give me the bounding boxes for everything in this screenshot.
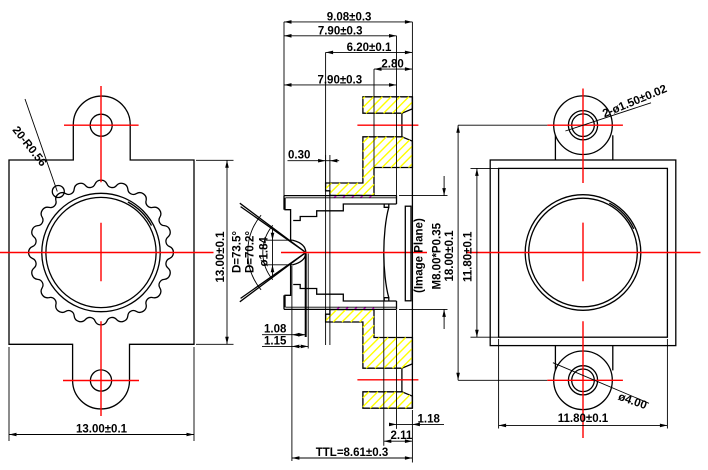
dim TTL arrows — [292, 456, 300, 460]
dim 1.15 line — [262, 345, 308, 347]
dim 13.00 right line — [226, 160, 228, 344]
barrel thread root line bottom — [286, 306, 397, 308]
section holder upper L-piece below hole — [326, 137, 413, 196]
optical axis centerline — [281, 252, 427, 254]
svg-text:ø1.84: ø1.84 — [259, 236, 271, 266]
dim 2.11 arrows — [384, 439, 392, 443]
svg-text:D=73.5°: D=73.5° — [232, 231, 244, 273]
extension line barrel rear down — [396, 310, 398, 429]
left view lens bore inner circle — [46, 197, 156, 307]
svg-text:11.80±0.1: 11.80±0.1 — [558, 413, 609, 425]
svg-text:13.00±0.1: 13.00±0.1 — [215, 231, 227, 283]
thread engagement hatch magenta top — [334, 195, 372, 198]
extension line aperture face down — [291, 266, 293, 461]
right view top hole chamfer circle — [568, 111, 597, 140]
svg-text:7.90±0.3: 7.90±0.3 — [317, 74, 362, 86]
right view vertical centerline — [582, 89, 584, 439]
fov cone line 70.2 bottom — [241, 253, 306, 299]
fov arc inner — [263, 225, 273, 279]
extension line second vertex down — [307, 254, 309, 349]
left view body outline — [9, 96, 194, 409]
M8 thread dim line — [443, 176, 445, 196]
barrel front outer step top — [285, 198, 291, 240]
right view top tab sides — [554, 135, 556, 160]
left view knurled focus ring (20 teeth) — [29, 180, 174, 325]
left view horizontal centerline — [0, 252, 214, 254]
svg-text:M8.00*P0.35: M8.00*P0.35 — [432, 222, 444, 289]
leader 4.00 line — [553, 363, 649, 404]
dim 13.00 bottom extension lines — [8, 347, 10, 441]
extension line rear vertex down — [383, 254, 385, 446]
section holder lower ear lobe below hole — [363, 392, 413, 408]
front lens surface — [293, 240, 306, 265]
svg-text:D=70.2°: D=70.2° — [245, 231, 257, 273]
dim TTL line — [292, 457, 413, 459]
section bottom hole centerline — [357, 379, 418, 381]
extension line cavity wall up — [373, 69, 375, 167]
dim 11.80 bottom extension lines — [498, 339, 500, 429]
label 20-R0.56 leader line — [25, 99, 57, 192]
section holder lower L-piece above hole — [326, 310, 413, 369]
dim 1.84 line — [272, 229, 274, 277]
svg-text:11.80±0.1: 11.80±0.1 — [463, 231, 475, 282]
dim 13.00 bottom line — [9, 434, 194, 436]
aperture edge bottom — [291, 264, 293, 266]
right view bottom tab sides — [554, 346, 556, 371]
svg-text:TTL=8.61±0.3: TTL=8.61±0.3 — [316, 447, 388, 459]
right view horizontal centerline — [467, 252, 701, 254]
dim 1.08 line — [262, 334, 306, 336]
extension line back face down — [411, 410, 413, 463]
dim 1.84 arrows — [271, 233, 275, 241]
barrel front face bottom segment — [283, 295, 285, 309]
thread engagement hatch magenta bottom — [337, 307, 374, 310]
left view thread arc fragment — [128, 202, 152, 226]
dim 11.80 bottom arrows — [499, 424, 507, 428]
svg-text:2.11: 2.11 — [391, 430, 413, 442]
right view bore circle outer — [525, 195, 641, 311]
svg-text:13.00±0.1: 13.00±0.1 — [76, 424, 128, 436]
hatch lower L-piece — [326, 310, 413, 369]
svg-text:ø4.00: ø4.00 — [616, 391, 648, 412]
right view inner body square — [499, 168, 668, 337]
right view bore circle inner — [529, 198, 638, 307]
dim 6.20 line — [326, 51, 413, 53]
right view top hole circle — [572, 114, 595, 137]
right view bottom hole chamfer circle — [568, 366, 597, 395]
dim 2.80 line — [374, 68, 412, 70]
barrel inner bore steps bottom — [293, 285, 396, 302]
section holder ear hole chamfer verticals — [401, 113, 403, 137]
svg-text:20-R0.56: 20-R0.56 — [10, 124, 49, 169]
svg-text:18.00±0.1: 18.00±0.1 — [444, 230, 456, 282]
holder back face line — [411, 97, 413, 408]
fov cone line 73.5 top — [240, 203, 306, 252]
right view bottom hole centerline — [547, 379, 623, 381]
svg-text:1.15: 1.15 — [264, 335, 287, 347]
fov cone line 70.2 top — [241, 207, 306, 253]
right view outer plate square — [490, 160, 676, 346]
left view top ear hole — [90, 114, 112, 136]
dim 9.08 line — [284, 21, 412, 23]
M8 thread dim extension lines — [399, 195, 448, 197]
barrel rear end face bottom — [396, 301, 398, 309]
svg-text:1.08: 1.08 — [264, 324, 287, 336]
dim 7.90 upper line — [284, 35, 397, 37]
right view bottom hole circle — [572, 369, 595, 392]
hatch lower ear lobe — [363, 392, 413, 408]
left view lens bore outer circle — [42, 193, 160, 311]
svg-text:1.18: 1.18 — [418, 413, 441, 425]
barrel inner bore steps top — [293, 204, 396, 221]
extension line barrel front face up — [283, 22, 285, 196]
extension line barrel rear up — [396, 36, 398, 196]
dim 1.84 extension lines — [266, 239, 292, 241]
dim 1.08 arrows — [292, 333, 300, 337]
dim 13.00 bottom arrows — [9, 433, 17, 437]
barrel front outer step bottom — [285, 265, 291, 307]
dim 11.80 left line — [476, 168, 478, 337]
barrel rear end face top — [396, 196, 398, 204]
dim 7.90 lower line — [284, 84, 397, 86]
dim 18.00 line — [457, 125, 459, 380]
barrel thread root line top — [286, 197, 397, 199]
extension line holder front face up — [325, 52, 327, 183]
extension line holder back face up — [411, 22, 413, 97]
right view top hole centerline — [547, 124, 623, 126]
svg-text:(Image Plane): (Image Plane) — [414, 218, 426, 293]
left view vertical centerline — [100, 86, 102, 416]
barrel thread crest line top — [284, 195, 397, 197]
right view bottom boss circle — [554, 351, 613, 410]
fov cone line 73.5 bottom — [240, 253, 306, 302]
svg-text:6.20±0.1: 6.20±0.1 — [347, 42, 392, 54]
svg-text:7.90±0.3: 7.90±0.3 — [318, 25, 363, 37]
svg-text:9.08±0.3: 9.08±0.3 — [327, 11, 372, 23]
dim 18.00 arrows — [456, 125, 460, 133]
section top hole centerline — [357, 124, 418, 126]
dim 11.80 left extension lines — [471, 167, 499, 169]
dim 11.80 bottom line — [499, 424, 668, 426]
dim 1.18 line — [391, 423, 444, 425]
dim 1.15 arrows — [292, 345, 300, 349]
svg-text:2-ø1.50±0.02: 2-ø1.50±0.02 — [601, 83, 669, 120]
left view top hole centerline — [64, 124, 139, 126]
right view thread arc fragment — [609, 203, 633, 229]
aperture edge top — [291, 239, 293, 241]
dim 13.00 right extension lines — [196, 159, 234, 161]
dim 0.30 arrows — [318, 159, 326, 163]
rear element retainer notch bottom — [384, 298, 389, 301]
right view top boss circle — [554, 96, 613, 155]
hatch upper ear lobe — [363, 97, 413, 113]
dim 0.30 line — [288, 160, 340, 162]
fov arc outer — [248, 215, 261, 290]
dim 2.11 line — [384, 440, 413, 442]
svg-text:0.30: 0.30 — [288, 150, 310, 162]
M8 thread dim arrows — [442, 188, 446, 196]
svg-text:2.80: 2.80 — [381, 59, 403, 71]
left view bottom ear hole — [90, 370, 111, 391]
barrel thread crest line bottom — [284, 308, 397, 310]
barrel front face top segment — [283, 196, 285, 210]
section holder upper ear lobe above hole — [363, 97, 413, 113]
extension line front vertex down — [305, 254, 307, 338]
dim 0.30 ticks — [325, 155, 327, 345]
dim 11.80 left arrows — [475, 168, 479, 176]
image plane strip — [405, 206, 411, 301]
leader 2-x1.50 line — [565, 103, 651, 131]
hatch upper L-piece — [326, 137, 413, 196]
left view bottom hole centerline — [63, 380, 139, 382]
dim 1.18 arrows — [389, 423, 397, 427]
rear lens surface — [384, 207, 389, 297]
label 20-R0.56 tooth circle — [52, 186, 64, 198]
rear element retainer notch top — [384, 204, 389, 207]
dim 18.00 extension lines — [458, 124, 547, 126]
dim 13.00 right arrows — [225, 160, 229, 168]
